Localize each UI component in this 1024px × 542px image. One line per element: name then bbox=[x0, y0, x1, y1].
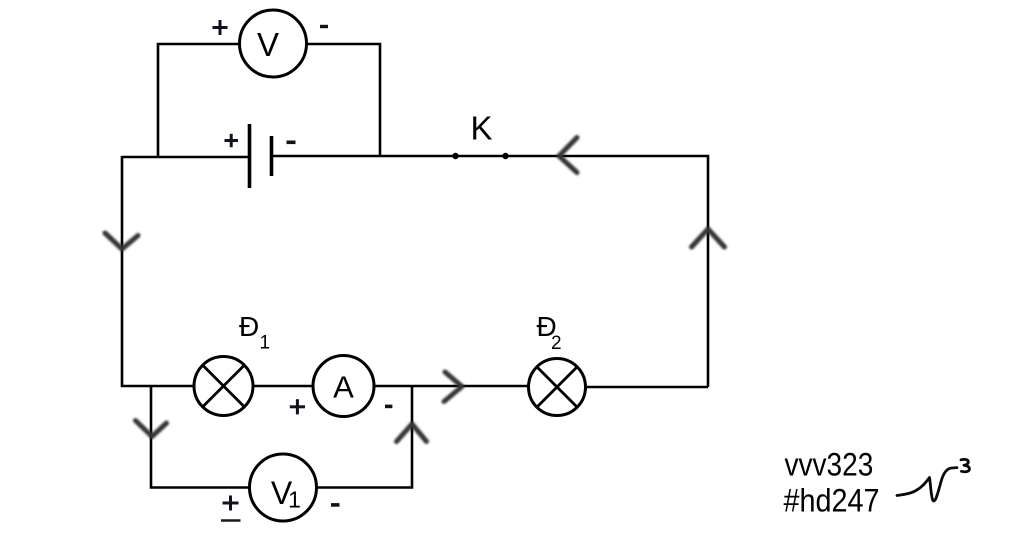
svg-text:A: A bbox=[333, 370, 354, 405]
svg-text:Đ: Đ bbox=[239, 311, 259, 342]
svg-text:1: 1 bbox=[288, 487, 301, 513]
svg-text:V: V bbox=[257, 26, 279, 63]
svg-text:1: 1 bbox=[260, 333, 271, 354]
svg-text:#hd247: #hd247 bbox=[784, 482, 880, 518]
svg-text:K: K bbox=[470, 109, 492, 146]
svg-text:2: 2 bbox=[551, 333, 562, 354]
svg-text:vvv323: vvv323 bbox=[785, 446, 874, 482]
